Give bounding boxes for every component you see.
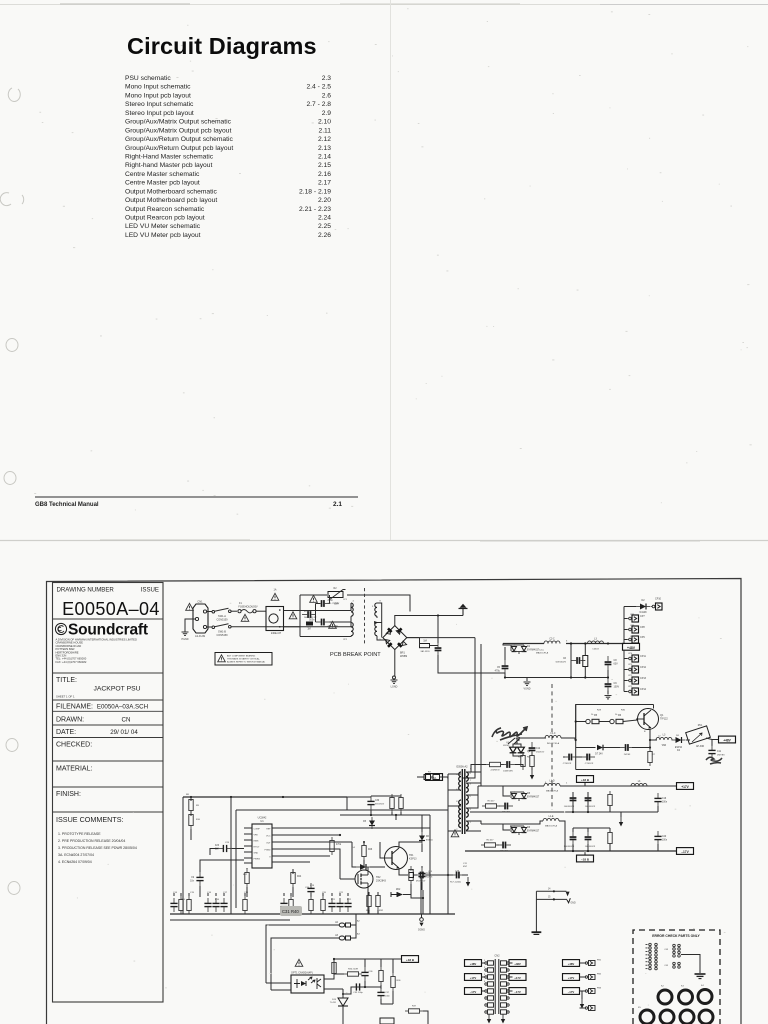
svg-text:MATERIAL:: MATERIAL: (56, 766, 92, 773)
capacitor C9 (605, 678, 620, 692)
wire: control top bus (183, 796, 347, 798)
toroid footprint K8 (699, 1010, 713, 1024)
wire: error check ground (681, 955, 700, 974)
svg-text:CP10: CP10 (655, 598, 662, 601)
resistor R18 (291, 869, 302, 897)
inductor L3 (656, 734, 672, 748)
test key TK1 (335, 921, 350, 927)
svg-text:FINISH:: FINISH: (56, 791, 81, 798)
svg-text:VGND: VGND (524, 688, 531, 691)
svg-text:R40: R40 (291, 909, 299, 914)
component at page edge (380, 1018, 394, 1024)
svg-text:K5: K5 (638, 1007, 641, 1009)
svg-text:MAG/B1: MAG/B1 (500, 850, 509, 853)
wire: snubber cap run (426, 874, 453, 876)
svg-text:+48V: +48V (627, 646, 636, 650)
wire: +17 rectifier feed (478, 783, 503, 808)
svg-text:2.17: 2.17 (318, 180, 331, 187)
svg-text:Group/Aux/Matrix Output pcb la: Group/Aux/Matrix Output pcb layout (125, 127, 231, 134)
capacitor C21 (497, 842, 511, 853)
capacitor C5 reservoir (495, 647, 509, 674)
resistor R6 (610, 714, 623, 724)
svg-text:CP13: CP13 (640, 677, 647, 680)
svg-text:R22: R22 (347, 899, 352, 901)
resistor R9 (530, 752, 534, 770)
svg-text:100U/63CR: 100U/63CR (585, 846, 596, 848)
svg-text:3: 3 (566, 641, 568, 643)
title block dividers (53, 619, 164, 812)
wire: U1 right pin runs (272, 828, 430, 862)
connector CP10 (651, 598, 663, 611)
IC U1 PWM controller (252, 817, 272, 868)
diode D2 N4148 (636, 599, 650, 614)
connector CP12 (624, 666, 647, 673)
svg-text:R29: R29 (597, 710, 602, 712)
resistor R24 (367, 892, 371, 910)
wire: mosfet connections (340, 856, 368, 914)
svg-text:C9: C9 (191, 877, 195, 879)
capacitor C28b (450, 871, 465, 884)
arrow: CN3 drain (580, 991, 584, 1009)
svg-text:100n: 100n (385, 995, 391, 997)
transistor Q1 (636, 709, 668, 730)
ground LGND (391, 676, 398, 689)
svg-text:+48V: +48V (514, 962, 521, 966)
svg-text:R15: R15 (181, 899, 186, 901)
capacitor C11 (708, 740, 725, 760)
svg-text:DATE:: DATE: (56, 729, 76, 736)
capacitor C19 (585, 831, 596, 848)
svg-text:2.6: 2.6 (322, 92, 332, 99)
svg-text:2.7 - 2.8: 2.7 - 2.8 (306, 101, 331, 108)
inductor L7 (503, 816, 565, 851)
toroid footprint K5 (638, 1007, 654, 1024)
toroid footprint K7 (680, 1010, 694, 1024)
svg-text:2.12: 2.12 (318, 136, 331, 143)
svg-text:B: B (644, 731, 646, 733)
svg-text:C19: C19 (310, 885, 315, 887)
safety notice box (215, 653, 272, 666)
svg-text:2.25: 2.25 (318, 223, 331, 230)
wire: opto connections (266, 959, 343, 990)
svg-text:2.15: 2.15 (318, 162, 331, 169)
svg-text:C20: C20 (662, 836, 667, 838)
table of contents (125, 75, 331, 239)
wire: choke secondary to bridge ac2 (377, 616, 388, 640)
svg-text:Circuit Diagrams: Circuit Diagrams (127, 33, 317, 59)
svg-text:Group/Aux/Matrix Output schema: Group/Aux/Matrix Output schematic (125, 119, 232, 126)
toroid footprint K6 (660, 1010, 674, 1024)
resistor R33 aux feed (417, 772, 448, 780)
svg-text:VCC: VCC (266, 836, 271, 838)
svg-text:ESP10: ESP10 (675, 747, 683, 749)
svg-text:RT/CT: RT/CT (254, 847, 261, 849)
arrow: rail mid return (619, 812, 623, 827)
svg-text:E0506-A2: E0506-A2 (456, 766, 468, 769)
wire: test key feeds (266, 914, 356, 990)
wire: aux gnd drop (535, 891, 537, 931)
warning triangle at opto (295, 959, 303, 966)
svg-text:R10: R10 (196, 819, 201, 821)
svg-text:C45: C45 (664, 965, 669, 967)
resistor R20 (330, 837, 342, 855)
svg-text:–18 B: –18 B (581, 858, 590, 862)
svg-text:1: 1 (566, 783, 568, 785)
toroid footprint K3 (679, 986, 693, 1005)
svg-text:240E-CH: 240E-CH (271, 632, 281, 635)
svg-text:2.21 - 2.23: 2.21 - 2.23 (299, 206, 331, 213)
svg-text:C11: C11 (463, 863, 468, 865)
wire: crowbar net (513, 738, 546, 756)
svg-text:PCB BREAK POINT: PCB BREAK POINT (330, 652, 381, 658)
svg-text:Output Motherboard schematic: Output Motherboard schematic (125, 188, 217, 195)
svg-text:LED VU Meter pcb layout: LED VU Meter pcb layout (125, 232, 201, 239)
svg-text:PWRG: PWRG (254, 859, 261, 861)
svg-text:TIP122: TIP122 (660, 718, 668, 721)
scan artifact: punch holes (0, 88, 23, 895)
capacitor C14b pair (563, 754, 595, 765)
transistor Q3 (385, 847, 418, 870)
capacitor C22 (190, 860, 244, 897)
svg-text:CON5159: CON5159 (216, 634, 228, 637)
wire: -17 rectifier feed (481, 823, 503, 825)
svg-text:C6: C6 (563, 657, 567, 660)
svg-text:100U/63CR: 100U/63CR (585, 806, 596, 808)
diode D8 (419, 815, 434, 852)
svg-text:8: 8 (380, 601, 382, 603)
svg-text:L3: L3 (594, 638, 597, 641)
svg-text:TL431: TL431 (330, 1002, 337, 1004)
svg-text:MAGCOR-A: MAGCOR-A (536, 651, 549, 654)
wire: choke secondary to bridge ac1 (374, 603, 382, 638)
scan artifact: vertical page edge (390, 0, 392, 540)
voltage selector SW2 (266, 607, 284, 636)
wire: Q1 emitter to output (649, 730, 657, 749)
transformer L1 mains choke winding 2P (300, 623, 353, 642)
svg-text:OPT1 CNX82A(4P): OPT1 CNX82A(4P) (291, 972, 313, 975)
svg-text:2.1: 2.1 (333, 501, 342, 508)
connector tag CN2 (426, 774, 449, 781)
date field (56, 729, 138, 736)
svg-text:R12: R12 (243, 874, 248, 876)
svg-text:C11: C11 (717, 751, 722, 753)
footer text (35, 501, 342, 508)
svg-text:DGND: DGND (418, 930, 425, 932)
ground in error box (695, 974, 706, 979)
svg-text:2.4 - 2.5: 2.4 - 2.5 (306, 84, 331, 91)
svg-text:5: 5 (447, 778, 449, 780)
svg-text:LGND: LGND (391, 686, 398, 689)
title block header (57, 587, 160, 594)
svg-text:W08M: W08M (400, 655, 407, 658)
wire: C9 bottom stub (605, 691, 612, 699)
title field (56, 677, 141, 699)
svg-text:100n: 100n (662, 839, 668, 841)
svg-text:C16: C16 (207, 892, 212, 894)
node J5 aux wire (536, 897, 576, 905)
svg-text:LED VU Meter schematic: LED VU Meter schematic (125, 223, 201, 230)
node tags J2 right (509, 960, 526, 995)
svg-text:Group/Aux/Return Output pcb la: Group/Aux/Return Output pcb layout (125, 145, 233, 152)
svg-text:R36: R36 (397, 980, 402, 982)
svg-text:29/ 01/ 04: 29/ 01/ 04 (110, 729, 138, 736)
svg-text:CP12: CP12 (640, 666, 647, 669)
capacitor C15 (585, 792, 596, 808)
svg-text:2SK2843: 2SK2843 (376, 879, 387, 882)
svg-text:ISNS: ISNS (254, 841, 259, 843)
diode D4 (672, 737, 686, 752)
wire: Q3 connections (380, 842, 422, 875)
svg-text:THIS MARK IS SAFETY CRITICAL.: THIS MARK IS SAFETY CRITICAL. (227, 658, 261, 661)
svg-text:100V: 100V (614, 685, 620, 688)
svg-text:K2: K2 (661, 986, 664, 988)
inductor L4 (545, 733, 575, 745)
svg-text:ESP10: ESP10 (426, 839, 434, 841)
capacitor C20 (654, 831, 667, 845)
capacitor C2 X-cap (309, 619, 338, 628)
Soundcraft logo (55, 622, 147, 639)
svg-text:ISSUE: ISSUE (141, 587, 159, 594)
wire: aux supply top (340, 796, 430, 914)
capacitor C6 (555, 657, 585, 664)
svg-text:CP14: CP14 (640, 688, 647, 691)
svg-text:TITLE:: TITLE: (56, 677, 77, 684)
node -17V tag (677, 848, 694, 855)
svg-text:L1-E: L1-E (549, 816, 554, 818)
error check pad grid left (646, 943, 658, 970)
connector J2 pins (485, 961, 509, 1014)
title block outline (53, 583, 164, 1003)
svg-text:D5: D5 (363, 821, 367, 823)
svg-text:C18: C18 (244, 892, 249, 894)
transformer L1 dashed core (364, 588, 366, 646)
svg-text:C30: C30 (375, 800, 380, 802)
svg-text:+48V: +48V (723, 739, 731, 743)
capacitor C12 (529, 742, 545, 756)
svg-text:2.18 - 2.19: 2.18 - 2.19 (299, 188, 331, 195)
capacitor C1 X-cap (316, 599, 340, 607)
svg-text:ALWAYS REFER TO SERVICE MANUAL: ALWAYS REFER TO SERVICE MANUAL (227, 661, 266, 664)
transformer L1 secondary winding 1S (372, 601, 382, 617)
node +48V A tag (719, 736, 736, 743)
test key TK2 (335, 934, 350, 940)
svg-text:7: 7 (470, 784, 472, 786)
earth symbol E1 (459, 604, 468, 616)
svg-text:A1-FL99: A1-FL99 (195, 634, 206, 638)
svg-text:Output Motherboard pcb layout: Output Motherboard pcb layout (125, 197, 217, 204)
svg-text:C2-C: C2-C (549, 639, 555, 641)
handwritten mark BETXF6 (492, 727, 527, 740)
transformer L1 mains choke winding 1P (300, 599, 355, 622)
svg-text:CP8: CP8 (640, 626, 645, 629)
svg-text:Centre Master schematic: Centre Master schematic (125, 171, 200, 178)
connector CP7 (624, 615, 645, 622)
node +18 B tag feed (334, 956, 419, 963)
zener D3 (576, 745, 620, 756)
wire: control inner box (231, 797, 448, 914)
arrow: chassis return (462, 875, 470, 887)
svg-text:2.20: 2.20 (318, 197, 331, 204)
ground VGND (524, 678, 531, 691)
svg-text:C15: C15 (190, 892, 195, 894)
svg-text:2A1-W20: 2A1-W20 (420, 650, 430, 653)
svg-text:C2-C: C2-C (539, 650, 545, 652)
capacitor C25 (367, 796, 384, 810)
svg-text:MAG/B1: MAG/B1 (502, 811, 511, 814)
svg-text:1. PROTOTYPE RELEASE: 1. PROTOTYPE RELEASE (58, 832, 101, 836)
svg-text:ISSUE COMMENTS:: ISSUE COMMENTS: (56, 815, 124, 824)
svg-text:+17V: +17V (568, 976, 575, 980)
svg-text:CON5159: CON5159 (216, 619, 228, 622)
warning triangle above selector (271, 589, 279, 601)
svg-text:R5: R5 (594, 714, 598, 717)
svg-text:1: 1 (470, 822, 472, 824)
wire: bottom bus (170, 914, 455, 920)
svg-text:KSP13: KSP13 (409, 857, 417, 860)
svg-text:2M7/BV: 2M7/BV (717, 754, 725, 756)
svg-text:3A. ECN#204 27/07/04: 3A. ECN#204 27/07/04 (58, 853, 94, 857)
svg-text:R8: R8 (186, 794, 190, 796)
transformer T1 (456, 766, 471, 835)
svg-text:ZD2: ZD2 (396, 889, 401, 891)
svg-text:470k: 470k (336, 844, 342, 846)
svg-text:2.9: 2.9 (322, 110, 332, 117)
resistor R15 (189, 796, 193, 814)
resistor R27 (334, 969, 362, 977)
wire: 48V head rail (503, 642, 624, 644)
svg-text:F26: F26 (215, 845, 220, 847)
svg-text:R30: R30 (621, 710, 626, 712)
node +18 B tag (577, 776, 594, 786)
connector CP13 (624, 677, 647, 684)
svg-text:63V/250V: 63V/250V (375, 803, 385, 805)
resistor R29 (391, 959, 401, 991)
node tags J2 left (465, 960, 485, 995)
capacitor C14 (564, 792, 577, 808)
svg-text:CP9: CP9 (640, 636, 645, 639)
mosfet Q2 (355, 870, 387, 888)
svg-text:Output Rearcon schematic: Output Rearcon schematic (125, 206, 205, 213)
svg-text:2.3: 2.3 (322, 75, 332, 82)
svg-text:ANY COMPONENT BEARING: ANY COMPONENT BEARING (227, 655, 256, 658)
svg-text:D4: D4 (677, 750, 681, 752)
warning triangle at inlet (186, 603, 194, 610)
svg-text:L3: L3 (638, 781, 641, 783)
resistor R8 (521, 752, 525, 770)
svg-text:R24: R24 (297, 876, 302, 878)
svg-text:C13: C13 (428, 871, 433, 873)
shunt reg D11 TL431 (330, 998, 348, 1006)
capacitor C10 (620, 744, 634, 756)
bottom rc row (170, 893, 351, 914)
capacitor C27 (415, 871, 433, 883)
capacitor C13 (501, 761, 515, 772)
arrow: crowbar gate return (530, 767, 534, 780)
svg-text:+18 B: +18 B (406, 958, 415, 962)
svg-text:C12: C12 (536, 748, 541, 750)
connector CN4 stub (409, 873, 417, 878)
wire: snubber verticals (421, 869, 448, 914)
error check pad grid mid (664, 944, 680, 968)
svg-text:L3: L3 (663, 734, 666, 737)
svg-text:3: 3 (470, 809, 472, 811)
capacitor C4 (435, 642, 442, 656)
scan artifact: top edge line (0, 3, 768, 6)
svg-text:Group/Aux/Return Output schema: Group/Aux/Return Output schematic (125, 136, 233, 143)
resistor R5 (586, 714, 599, 724)
resistor R10 (486, 762, 504, 771)
wire: bridge top to earth run (395, 614, 463, 625)
capacitor C3 X-cap (302, 610, 317, 619)
wire: mains top run (300, 595, 410, 612)
node tags CN3 (563, 960, 580, 995)
svg-text:BYRM4027: BYRM4027 (527, 829, 540, 832)
diode D9 (352, 842, 385, 870)
inductor L2 (544, 639, 560, 644)
capacitor C30 (377, 987, 390, 1001)
svg-text:C?/63CR: C?/63CR (585, 763, 594, 765)
resistor R22 (392, 794, 403, 815)
svg-text:C35 100p: C35 100p (353, 992, 363, 994)
wire: right return (411, 890, 424, 914)
svg-text:FB2: FB2 (597, 974, 602, 976)
wire: snubber net (407, 616, 475, 674)
node J4 aux wire (536, 889, 569, 897)
svg-text:1P1: 1P1 (343, 599, 348, 601)
capacitor C24 (307, 883, 314, 897)
svg-text:X0205: X0205 (503, 745, 510, 747)
svg-text:FB1: FB1 (597, 960, 602, 962)
svg-text:Stereo Input schematic: Stereo Input schematic (125, 101, 194, 108)
dual diode D6 (503, 824, 540, 835)
svg-text:R6: R6 (618, 714, 622, 717)
error check dashed box (633, 930, 720, 1024)
svg-text:C21: C21 (339, 892, 344, 894)
svg-text:PGND: PGND (182, 638, 189, 641)
svg-text:R3 4k7: R3 4k7 (488, 801, 496, 803)
wire: regulator box (575, 705, 654, 770)
svg-text:MAGCOR-A: MAGCOR-A (545, 825, 558, 828)
optocoupler OPT1 (291, 972, 324, 994)
svg-text:AP-30R: AP-30R (696, 745, 704, 748)
switch SW1-B (207, 624, 300, 637)
connector CP9 (624, 636, 645, 643)
resistor R23 (409, 866, 413, 890)
svg-text:–17V: –17V (470, 990, 477, 994)
svg-text:BYRM4027: BYRM4027 (527, 795, 540, 798)
capacitor C28 (361, 959, 373, 981)
bridge rectifier BR1 (383, 626, 407, 658)
svg-text:2.24: 2.24 (318, 215, 331, 222)
connector CP8 (624, 626, 645, 633)
svg-text:ERROR CHECK PARTS ONLY: ERROR CHECK PARTS ONLY (652, 934, 700, 938)
svg-text:1M: 1M (423, 639, 427, 643)
svg-text:7: 7 (470, 780, 472, 782)
svg-text:R31: R31 (366, 910, 371, 912)
svg-text:C36: C36 (369, 971, 374, 973)
svg-text:D8: D8 (676, 735, 680, 737)
svg-text:C14: C14 (173, 892, 178, 894)
svg-text:CN1: CN1 (197, 600, 203, 604)
svg-text:CHECKED:: CHECKED: (56, 742, 92, 749)
filename field (56, 704, 148, 711)
dual diode D1 (503, 644, 540, 655)
svg-text:R4 4k7: R4 4k7 (487, 840, 495, 842)
scan artifact: page gap line (0, 540, 768, 541)
svg-text:2.13: 2.13 (318, 145, 331, 152)
issue comments field (56, 815, 124, 824)
svg-text:GB8 Technical Manual: GB8 Technical Manual (35, 502, 99, 508)
